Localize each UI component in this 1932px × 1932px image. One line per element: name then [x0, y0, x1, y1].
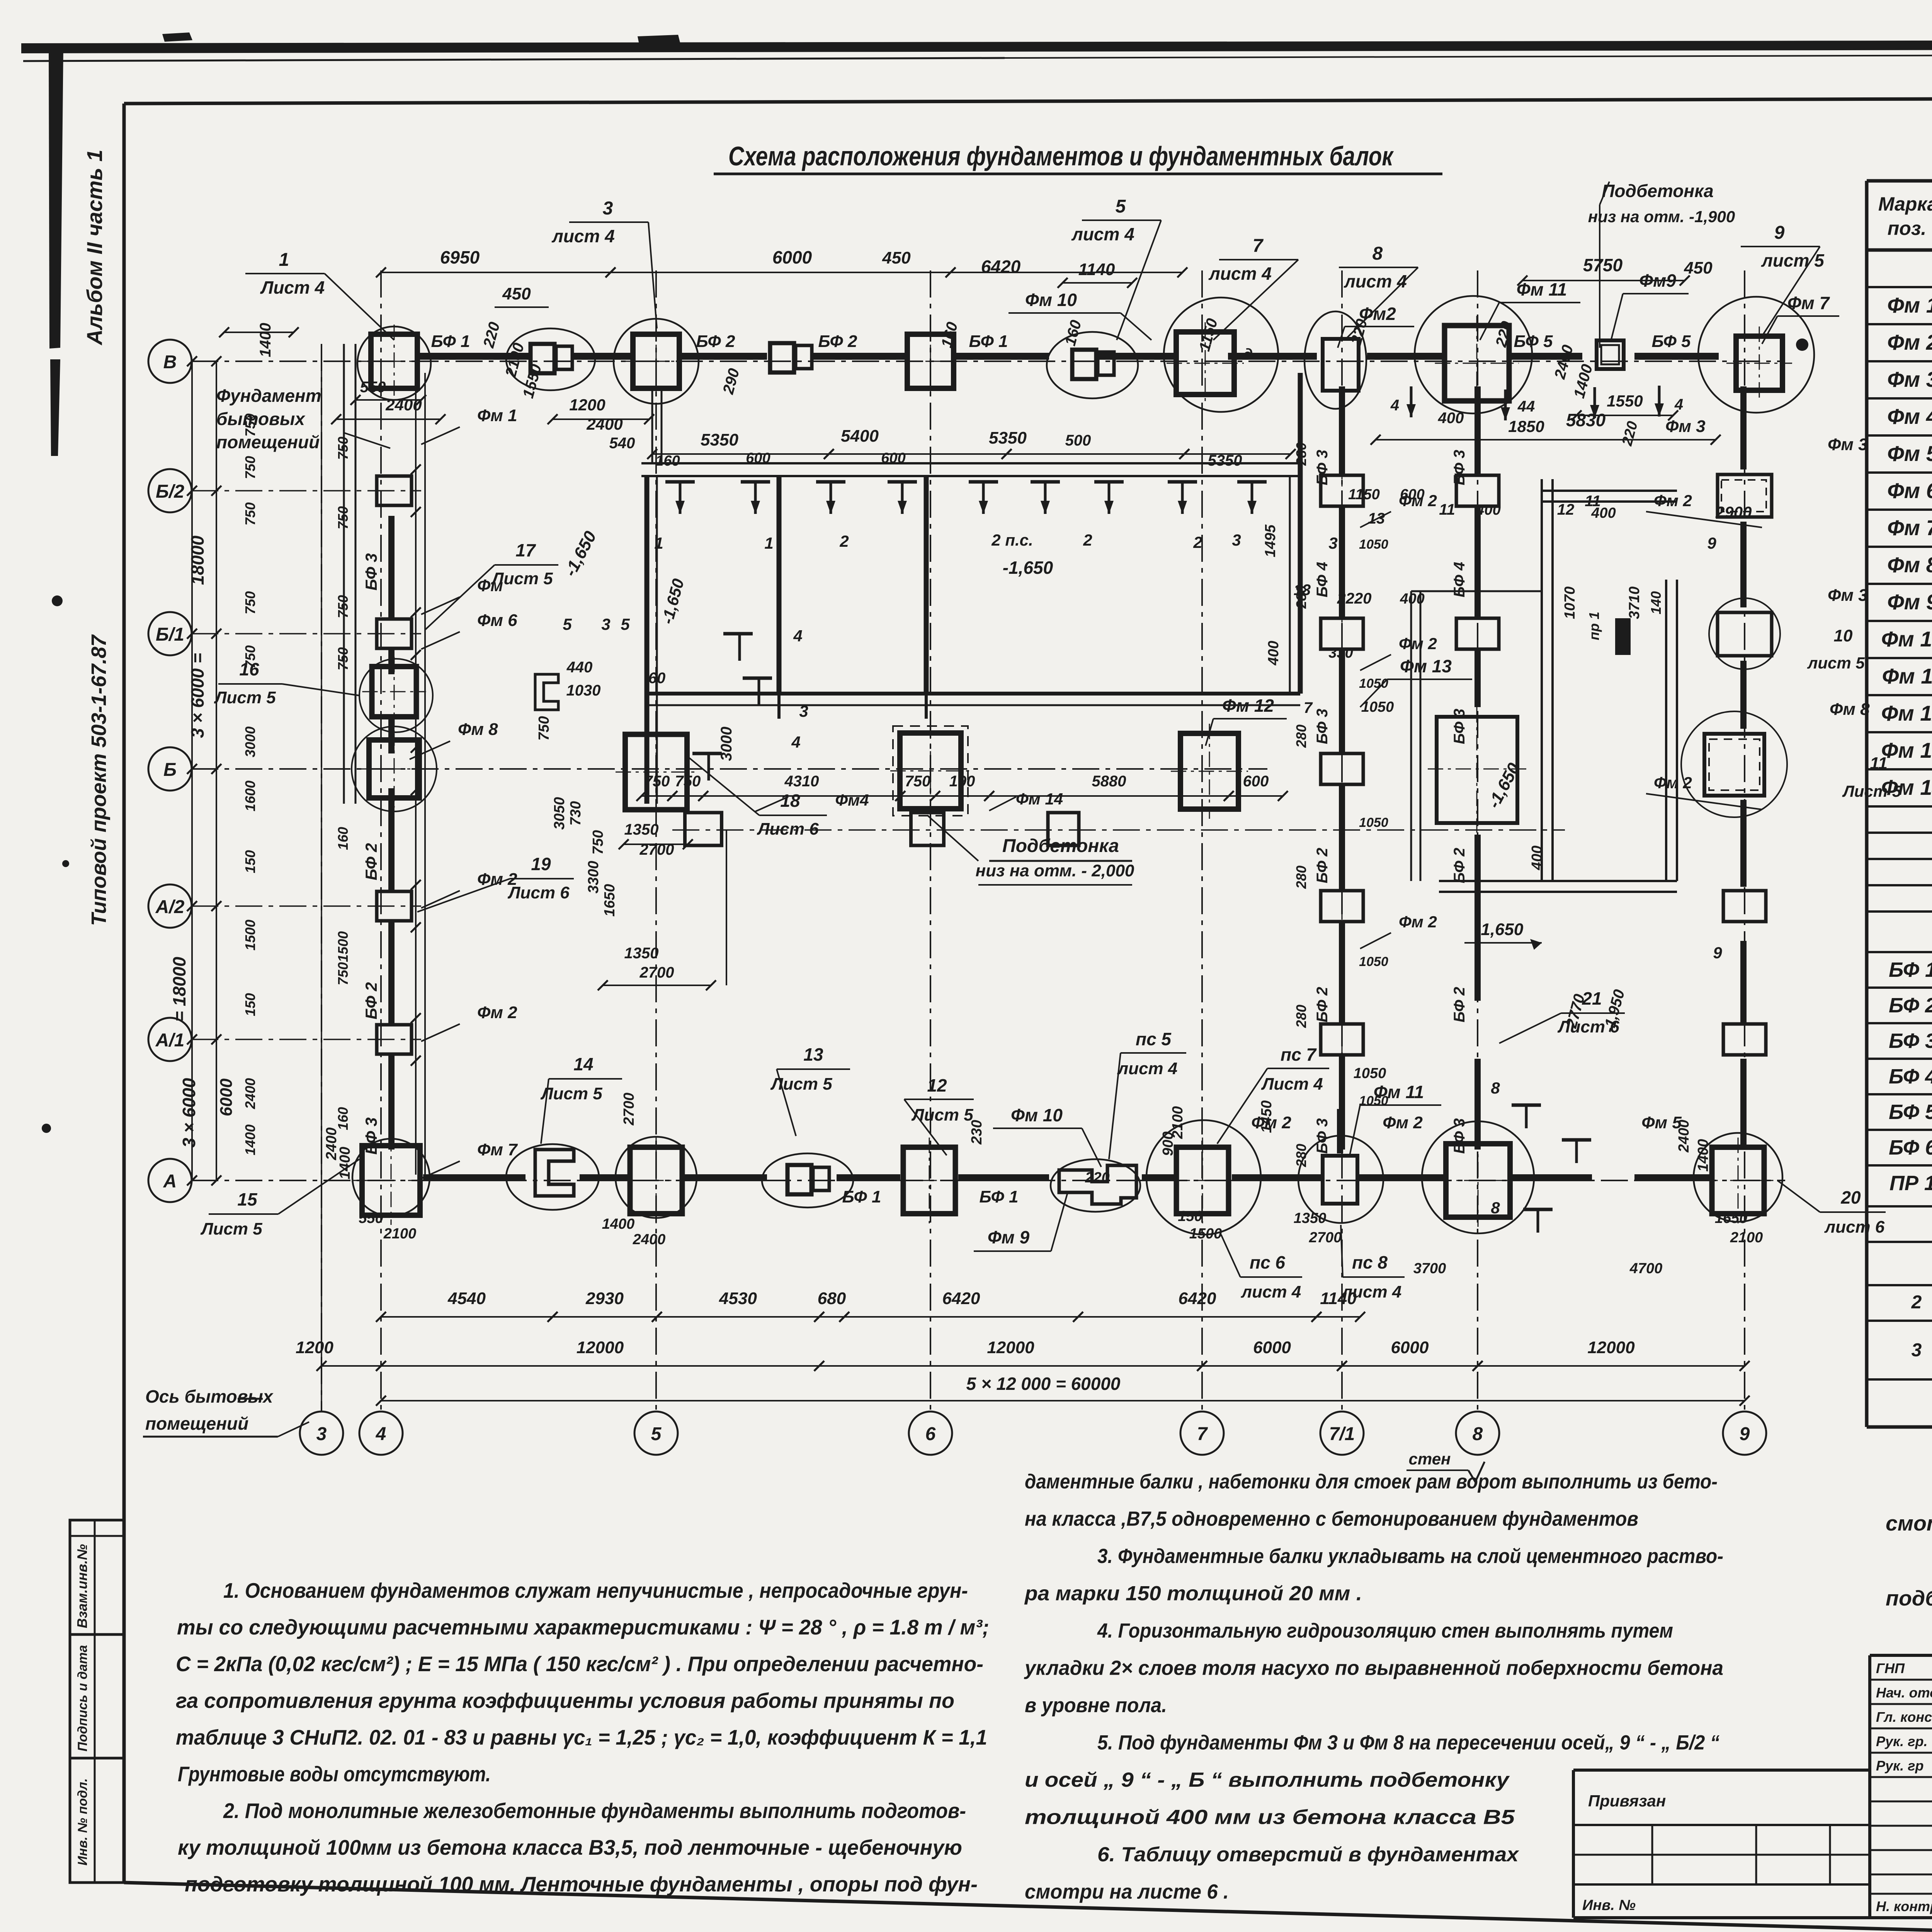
svg-text:Фм 8: Фм 8 — [1887, 553, 1932, 577]
svg-text:3710: 3710 — [1626, 587, 1643, 619]
misc foundation shapes — [535, 674, 558, 710]
svg-text:Н. контр.: Н. контр. — [1876, 1898, 1932, 1914]
svg-text:3: 3 — [601, 615, 610, 633]
svg-text:5750: 5750 — [1583, 255, 1623, 275]
svg-text:18: 18 — [780, 791, 800, 811]
foundation squares row В — [371, 334, 417, 388]
svg-text:3: 3 — [1328, 534, 1337, 552]
svg-text:1030: 1030 — [566, 682, 601, 699]
svg-text:600: 600 — [1243, 773, 1269, 790]
svg-text:2100: 2100 — [383, 1226, 417, 1242]
svg-text:Фм 8: Фм 8 — [1830, 700, 1870, 719]
svg-text:БФ 1: БФ 1 — [979, 1187, 1018, 1206]
svg-text:5: 5 — [651, 1424, 662, 1444]
svg-text:БФ 2: БФ 2 — [696, 332, 735, 351]
svg-text:Инв. №: Инв. № — [1582, 1897, 1636, 1913]
svg-text:20: 20 — [1840, 1187, 1861, 1207]
svg-text:поз.: поз. — [1888, 218, 1927, 239]
svg-text:4. Горизонтальную гидроизол: 4. Горизонтальную гидроизоляцию стен вып… — [1097, 1619, 1673, 1642]
svg-text:400: 400 — [1265, 641, 1282, 665]
svg-text:-1,650: -1,650 — [1003, 558, 1053, 578]
svg-text:9: 9 — [1713, 944, 1722, 962]
svg-text:900: 900 — [1160, 1131, 1176, 1156]
svg-text:Фм 8: Фм 8 — [458, 720, 498, 739]
svg-text:160: 160 — [655, 453, 680, 469]
special shapes row А — [535, 1150, 574, 1196]
svg-text:БФ 2: БФ 2 — [1889, 994, 1932, 1017]
svg-text:150: 150 — [1178, 1208, 1202, 1225]
svg-text:Фм 2: Фм 2 — [1399, 634, 1437, 653]
sheet frame — [124, 97, 1932, 104]
svg-text:Фм 3: Фм 3 — [1887, 367, 1932, 391]
svg-text:5: 5 — [621, 615, 630, 633]
svg-text:6000: 6000 — [1253, 1338, 1291, 1357]
svg-text:Б: Б — [163, 760, 177, 780]
svg-text:ГНП: ГНП — [1876, 1660, 1905, 1676]
foundation chain axis 7/1 — [1321, 475, 1363, 506]
svg-text:1500: 1500 — [335, 931, 351, 962]
svg-text:12000: 12000 — [987, 1338, 1034, 1357]
svg-text:Фм 2: Фм 2 — [477, 1003, 517, 1022]
svg-text:Нач. отд: Нач. отд — [1876, 1685, 1932, 1701]
svg-text:1200: 1200 — [296, 1338, 333, 1357]
wall section marks lower — [723, 632, 753, 636]
svg-text:3000: 3000 — [242, 726, 258, 757]
svg-text:Фм 7: Фм 7 — [1787, 293, 1830, 313]
svg-text:БФ 4: БФ 4 — [1314, 562, 1331, 597]
svg-text:5350: 5350 — [989, 429, 1027, 447]
svg-text:Фм 10: Фм 10 — [1881, 627, 1932, 651]
svg-text:Фм 11: Фм 11 — [1374, 1082, 1424, 1102]
svg-text:3. Фундаментные балки уклад: 3. Фундаментные балки укладывать на слой… — [1097, 1545, 1723, 1568]
svg-text:750: 750 — [242, 456, 258, 479]
svg-text:4: 4 — [793, 627, 802, 645]
svg-text:1140: 1140 — [1320, 1289, 1357, 1308]
svg-text:Фм 1: Фм 1 — [477, 406, 517, 425]
svg-text:400: 400 — [1529, 845, 1545, 870]
svg-text:150: 150 — [242, 993, 258, 1016]
svg-text:500: 500 — [1065, 432, 1091, 449]
svg-text:Фм 2: Фм 2 — [1383, 1113, 1423, 1132]
svg-text:БФ 2: БФ 2 — [1314, 848, 1331, 883]
foundation chain axis 9 — [1723, 891, 1766, 922]
svg-text:1350: 1350 — [624, 821, 659, 838]
svg-text:13: 13 — [1368, 510, 1385, 527]
svg-text:450: 450 — [1684, 259, 1713, 277]
svg-text:1140: 1140 — [1078, 260, 1115, 279]
svg-text:Б/1: Б/1 — [156, 624, 184, 645]
svg-text:1050: 1050 — [1359, 676, 1388, 691]
svg-text:пр 1: пр 1 — [1586, 612, 1602, 640]
svg-text:Гл. констр.: Гл. констр. — [1876, 1709, 1932, 1725]
svg-text:низ на отм. - 2,000: низ на отм. - 2,000 — [976, 861, 1134, 880]
svg-text:БФ 3: БФ 3 — [1889, 1029, 1932, 1053]
svg-text:смотри на листе 6 .: смотри на листе 6 . — [1025, 1881, 1229, 1903]
svg-text:пс 5: пс 5 — [1136, 1029, 1172, 1049]
svg-text:Фм 3: Фм 3 — [1665, 417, 1706, 436]
left dimension column — [216, 361, 217, 1180]
svg-text:3000: 3000 — [718, 727, 735, 761]
small foundation pairs row В — [531, 344, 554, 373]
svg-text:БФ 5: БФ 5 — [1514, 332, 1553, 351]
svg-text:БФ 4: БФ 4 — [1889, 1065, 1932, 1088]
svg-text:Фм: Фм — [477, 576, 503, 595]
svg-text:6000: 6000 — [1391, 1338, 1429, 1357]
svg-text:Фм 1: Фм 1 — [1887, 293, 1932, 317]
svg-text:Подбетонка: Подбетонка — [1002, 836, 1119, 856]
wall section marks upper — [665, 480, 695, 484]
svg-text:1. Основанием фундаментов сл: 1. Основанием фундаментов служат непучин… — [223, 1578, 968, 1602]
svg-text:Лист 6: Лист 6 — [757, 820, 819, 838]
svg-text:1495: 1495 — [1262, 524, 1279, 557]
svg-text:1050: 1050 — [1354, 1065, 1386, 1082]
svg-text:БФ 1: БФ 1 — [842, 1187, 881, 1206]
svg-text:3: 3 — [316, 1424, 327, 1444]
svg-text:лист 4: лист 4 — [551, 226, 615, 246]
svg-text:9: 9 — [1774, 223, 1785, 243]
svg-text:БФ 1: БФ 1 — [969, 332, 1008, 351]
svg-text:8: 8 — [1491, 1199, 1500, 1217]
svg-text:1050: 1050 — [1359, 954, 1388, 969]
svg-text:в уровне пола.: в уровне пола. — [1025, 1694, 1167, 1717]
svg-text:1500: 1500 — [1189, 1226, 1222, 1242]
svg-text:БФ 1: БФ 1 — [1889, 958, 1932, 981]
svg-text:4: 4 — [1674, 396, 1683, 413]
horizontal axis lines — [191, 361, 1785, 362]
svg-text:Фм 3: Фм 3 — [1828, 435, 1868, 454]
svg-text:ПР 1: ПР 1 — [1889, 1172, 1932, 1195]
svg-text:Грунтовые воды отсутствуют: Грунтовые воды отсутствуют. — [178, 1762, 491, 1786]
svg-text:6420: 6420 — [981, 257, 1021, 277]
svg-text:Фм 10: Фм 10 — [1011, 1105, 1063, 1125]
svg-text:14: 14 — [573, 1054, 593, 1074]
svg-text:1500: 1500 — [242, 920, 258, 951]
svg-text:БФ 5: БФ 5 — [1651, 332, 1691, 351]
svg-text:БФ 2: БФ 2 — [362, 982, 380, 1019]
svg-text:1050: 1050 — [1359, 537, 1388, 552]
svg-text:2220: 2220 — [1337, 590, 1372, 607]
svg-text:3: 3 — [603, 198, 613, 219]
title block signature grid — [1868, 1655, 1871, 1918]
svg-text:140: 140 — [1648, 591, 1664, 614]
svg-text:2400: 2400 — [242, 1078, 258, 1109]
foundation chain axis 4 — [377, 476, 412, 505]
left axis circles — [148, 340, 192, 383]
svg-text:Лист 4: Лист 4 — [1261, 1075, 1323, 1094]
svg-text:лист 4: лист 4 — [1071, 224, 1134, 244]
svg-text:7: 7 — [1197, 1424, 1208, 1444]
svg-text:Фм 9: Фм 9 — [988, 1227, 1030, 1247]
svg-text:750: 750 — [536, 716, 552, 740]
svg-text:3300: 3300 — [585, 861, 602, 894]
svg-text:Б/2: Б/2 — [156, 481, 184, 502]
svg-text:2: 2 — [839, 532, 849, 550]
svg-text:и осей „ 9 “ - „ Б “ вып: и осей „ 9 “ - „ Б “ выполнить подбетонк… — [1025, 1769, 1510, 1791]
svg-text:160: 160 — [335, 1107, 351, 1130]
svg-text:160: 160 — [335, 827, 351, 850]
svg-text:19: 19 — [531, 854, 551, 874]
svg-text:Фм 6: Фм 6 — [1887, 478, 1932, 503]
svg-text:7: 7 — [1253, 236, 1264, 256]
svg-text:А/1: А/1 — [155, 1030, 185, 1051]
svg-text:В: В — [163, 352, 177, 372]
svg-text:С = 2кПа (0,02 кгс/см²) ; Е =: С = 2кПа (0,02 кгс/см²) ; Е = 15 МПа ( 1… — [176, 1652, 983, 1676]
svg-text:3050: 3050 — [551, 797, 568, 830]
svg-text:2: 2 — [1911, 1292, 1922, 1313]
svg-text:750: 750 — [335, 962, 351, 985]
svg-text:1150: 1150 — [1348, 486, 1380, 503]
svg-text:2400: 2400 — [586, 415, 622, 433]
svg-text:= 18000: = 18000 — [169, 957, 189, 1022]
svg-text:низ на отм. -1,900: низ на отм. -1,900 — [1588, 207, 1735, 226]
svg-text:Фм 4: Фм 4 — [1887, 404, 1932, 429]
svg-text:1: 1 — [279, 250, 289, 270]
svg-text:Фм 5: Фм 5 — [1887, 441, 1932, 466]
svg-text:Фм 2: Фм 2 — [1654, 774, 1692, 792]
svg-text:750: 750 — [242, 591, 258, 614]
svg-text:5 × 12 000 = 60000: 5 × 12 000 = 60000 — [966, 1374, 1120, 1394]
svg-text:11: 11 — [1439, 501, 1455, 518]
svg-text:4310: 4310 — [784, 773, 819, 790]
svg-text:Фм 11: Фм 11 — [1882, 664, 1932, 688]
title block binding box — [1573, 1769, 1870, 1772]
svg-text:730: 730 — [568, 801, 584, 825]
svg-text:ку толщиной 100мм из бетон: ку толщиной 100мм из бетона класса В3,5,… — [178, 1835, 962, 1859]
svg-text:5: 5 — [563, 615, 572, 633]
svg-text:пс 8: пс 8 — [1352, 1252, 1388, 1272]
svg-text:10: 10 — [1834, 626, 1853, 645]
svg-text:Альбом II часть 1: Альбом II часть 1 — [82, 150, 107, 346]
svg-text:Ось бытовых: Ось бытовых — [145, 1386, 274, 1406]
svg-text:БФ 3: БФ 3 — [1314, 709, 1331, 744]
svg-text:1200: 1200 — [569, 396, 605, 414]
svg-text:7: 7 — [1304, 699, 1313, 716]
svg-text:Фм 6: Фм 6 — [477, 611, 517, 630]
svg-text:Фм 2: Фм 2 — [1399, 913, 1437, 931]
svg-text:750: 750 — [590, 830, 606, 854]
svg-text:2. Под монолитные железобе: 2. Под монолитные железобетонные фундаме… — [223, 1799, 966, 1823]
svg-text:3 × 6000 =: 3 × 6000 = — [187, 653, 207, 738]
svg-text:укладки 2× слоев толя нас: укладки 2× слоев толя насухо по выравнен… — [1024, 1657, 1723, 1680]
foundation big Фм13 — [1437, 717, 1517, 823]
svg-text:330: 330 — [1328, 645, 1353, 661]
svg-text:6: 6 — [925, 1424, 936, 1444]
svg-text:Фм 9: Фм 9 — [1887, 590, 1932, 614]
svg-text:Лист 5: Лист 5 — [1842, 782, 1901, 800]
svg-text:280: 280 — [1293, 1005, 1309, 1028]
svg-text:Фм4: Фм4 — [835, 791, 869, 809]
svg-text:стен: стен — [1409, 1450, 1451, 1468]
svg-text:-1,650: -1,650 — [1475, 920, 1524, 939]
svg-text:3700: 3700 — [1413, 1260, 1446, 1277]
svg-text:Фм 13: Фм 13 — [1400, 656, 1452, 676]
svg-text:12: 12 — [927, 1075, 947, 1095]
svg-text:750: 750 — [644, 773, 670, 790]
svg-text:пс 6: пс 6 — [1250, 1252, 1285, 1272]
svg-text:550: 550 — [359, 1210, 383, 1226]
svg-text:4: 4 — [376, 1424, 386, 1444]
svg-text:Фм 3: Фм 3 — [1828, 586, 1868, 605]
svg-text:Фм 13: Фм 13 — [1881, 738, 1932, 762]
svg-text:Рук. гр.: Рук. гр. — [1876, 1733, 1928, 1749]
svg-text:550: 550 — [360, 379, 386, 396]
svg-text:6000: 6000 — [772, 247, 812, 267]
svg-text:9: 9 — [1740, 1424, 1750, 1444]
foundation squares axis Б left — [369, 740, 419, 798]
svg-text:2900: 2900 — [1715, 503, 1752, 521]
svg-text:Фм 2: Фм 2 — [1887, 330, 1932, 354]
svg-text:Фм 14: Фм 14 — [1016, 790, 1063, 808]
svg-text:1400: 1400 — [1695, 1139, 1711, 1172]
svg-text:5400: 5400 — [841, 427, 879, 446]
svg-text:440: 440 — [566, 659, 593, 676]
main title underline — [714, 173, 1442, 175]
svg-text:7/1: 7/1 — [1329, 1424, 1355, 1444]
svg-text:600: 600 — [1400, 486, 1424, 503]
svg-text:БФ 5: БФ 5 — [1889, 1100, 1932, 1124]
gate bay dims — [1410, 386, 1413, 417]
svg-text:Фм 12: Фм 12 — [1222, 696, 1274, 716]
svg-text:Фм9: Фм9 — [1639, 270, 1676, 291]
svg-text:БФ 3: БФ 3 — [362, 553, 380, 590]
svg-text:3: 3 — [799, 702, 808, 720]
svg-text:8: 8 — [1491, 1079, 1500, 1097]
svg-text:4530: 4530 — [719, 1289, 757, 1308]
svg-text:лист 4: лист 4 — [1117, 1059, 1178, 1078]
svg-text:1400: 1400 — [242, 1124, 258, 1155]
dim row total — [381, 1400, 1745, 1401]
dim row spans — [321, 1365, 381, 1367]
svg-text:БФ 3: БФ 3 — [1451, 709, 1468, 744]
svg-text:Фундамент: Фундамент — [216, 386, 321, 406]
svg-text:3: 3 — [1912, 1340, 1922, 1361]
svg-text:га сопротивления грунта к: га сопротивления грунта коэффициенты усл… — [176, 1689, 954, 1713]
margin inventory boxes — [70, 1520, 124, 1883]
svg-text:ра марки 150 толщиной 20: ра марки 150 толщиной 20 мм . — [1024, 1582, 1362, 1605]
svg-text:лист 5: лист 5 — [1807, 654, 1865, 672]
svg-text:Схема расположения фундамент: Схема расположения фундаментов и фундаме… — [728, 141, 1394, 171]
svg-text:бытовых: бытовых — [216, 409, 306, 429]
svg-text:Марка,: Марка, — [1878, 193, 1932, 215]
svg-text:230: 230 — [969, 1120, 985, 1145]
svg-text:2400: 2400 — [1676, 1120, 1692, 1153]
svg-text:280: 280 — [1293, 442, 1309, 466]
svg-text:Подбетонка: Подбетонка — [1602, 181, 1713, 201]
svg-text:лист 4: лист 4 — [1208, 264, 1272, 284]
svg-text:1450: 1450 — [1259, 1100, 1275, 1133]
svg-text:8: 8 — [1372, 243, 1383, 264]
building walls bytovye — [641, 462, 1300, 464]
svg-text:Подпись и дата: Подпись и дата — [75, 1645, 90, 1752]
svg-text:Рук. гр: Рук. гр — [1876, 1758, 1924, 1774]
gate bay walls — [1541, 479, 1543, 881]
svg-text:12000: 12000 — [1587, 1338, 1635, 1357]
svg-text:БФ 3: БФ 3 — [1314, 1118, 1331, 1154]
svg-text:280: 280 — [1293, 724, 1309, 748]
svg-text:на класса ,В7,5 одновремен: на класса ,В7,5 одновременно с бетониров… — [1025, 1508, 1638, 1531]
svg-text:600: 600 — [881, 450, 905, 466]
svg-text:9: 9 — [1707, 534, 1716, 552]
svg-text:400: 400 — [1476, 502, 1500, 518]
bottom axis circles — [300, 1412, 343, 1455]
svg-text:Лист 5: Лист 5 — [540, 1084, 602, 1103]
svg-text:12: 12 — [1557, 501, 1575, 518]
svg-text:15: 15 — [237, 1189, 258, 1209]
svg-text:Фм 7: Фм 7 — [477, 1140, 518, 1159]
foundation chain axis 8 squares — [1456, 475, 1499, 506]
scan dirt top edge — [21, 39, 1932, 53]
svg-text:1400: 1400 — [337, 1147, 353, 1180]
svg-text:60: 60 — [648, 670, 666, 687]
svg-text:лист 4: лист 4 — [1241, 1282, 1301, 1301]
svg-text:680: 680 — [818, 1289, 846, 1308]
svg-text:Фм 11: Фм 11 — [1517, 279, 1567, 299]
svg-text:БФ 1: БФ 1 — [431, 332, 470, 351]
svg-text:БФ 2: БФ 2 — [818, 332, 857, 351]
svg-text:1050: 1050 — [1361, 699, 1394, 715]
svg-text:помещений: помещений — [216, 432, 320, 452]
scan dirt left edge — [49, 45, 63, 349]
svg-text:17: 17 — [515, 540, 536, 560]
svg-text:таблице 3 СНиП2. 02. 01 - 83: таблице 3 СНиП2. 02. 01 - 83 и равны γc₁… — [176, 1725, 987, 1749]
svg-text:Типовой проект 503-1-67.87: Типовой проект 503-1-67.87 — [87, 634, 111, 926]
svg-text:толщиной 400 мм из бето: толщиной 400 мм из бетона класса В5 — [1025, 1806, 1515, 1829]
svg-text:2 п.с.: 2 п.с. — [991, 531, 1033, 549]
callout circles row А — [352, 1139, 430, 1216]
svg-text:220: 220 — [1085, 1170, 1109, 1186]
ink dot artifact — [1796, 338, 1808, 351]
svg-text:Фм 7: Фм 7 — [1887, 515, 1932, 540]
svg-text:Лист 5: Лист 5 — [214, 688, 276, 707]
svg-text:5: 5 — [1116, 196, 1126, 217]
svg-text:БФ 2: БФ 2 — [1314, 987, 1331, 1022]
svg-text:А/2: А/2 — [155, 897, 185, 917]
svg-text:1350: 1350 — [624, 945, 659, 962]
svg-text:150: 150 — [242, 850, 258, 873]
svg-text:БФ 2: БФ 2 — [362, 843, 380, 880]
spec table grid — [1867, 179, 1932, 183]
svg-text:2400: 2400 — [633, 1231, 666, 1248]
svg-text:1400: 1400 — [602, 1216, 635, 1232]
svg-text:5880: 5880 — [1092, 773, 1126, 790]
svg-text:2700: 2700 — [639, 964, 674, 981]
foundation beams row А — [423, 1174, 526, 1181]
svg-text:1070: 1070 — [1562, 587, 1578, 619]
svg-text:8: 8 — [1473, 1424, 1483, 1444]
svg-text:1650: 1650 — [1715, 1210, 1748, 1226]
svg-text:540: 540 — [609, 435, 635, 452]
svg-text:1550: 1550 — [1607, 392, 1643, 410]
svg-text:ты со следующими расчетными: ты со следующими расчетными характеристи… — [177, 1615, 989, 1639]
svg-text:6950: 6950 — [440, 247, 480, 267]
svg-text:Фм 2: Фм 2 — [477, 870, 517, 889]
mid band Фм4 Фм14 — [672, 829, 1565, 831]
svg-text:3: 3 — [1232, 531, 1241, 549]
svg-text:Привязан: Привязан — [1588, 1792, 1666, 1810]
svg-text:600: 600 — [746, 450, 770, 466]
top dimension row — [381, 272, 611, 273]
svg-text:1: 1 — [654, 534, 663, 552]
svg-text:подготовку толщиной 100 мм.: подготовку толщиной 100 мм. Ленточные фу… — [185, 1872, 978, 1896]
svg-text:д: д — [1243, 346, 1253, 363]
svg-text:2700: 2700 — [621, 1093, 637, 1126]
callout circles row В — [357, 327, 431, 400]
svg-text:11: 11 — [1870, 754, 1888, 773]
foundation beams row В — [419, 353, 529, 360]
svg-text:смотри на листе 21.: смотри на листе 21. — [1886, 1511, 1932, 1535]
svg-text:1850: 1850 — [1508, 417, 1544, 435]
svg-text:БФ 6: БФ 6 — [1889, 1136, 1932, 1159]
